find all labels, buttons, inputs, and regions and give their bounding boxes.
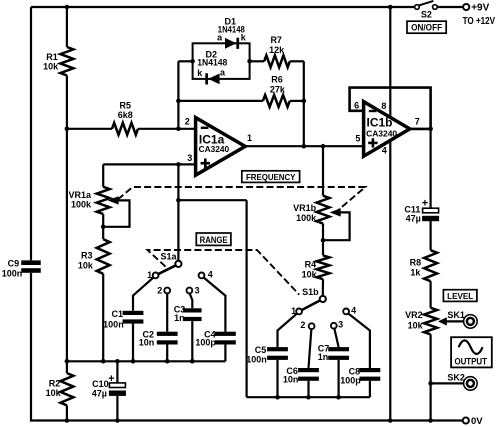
svg-text:2: 2 [185, 116, 190, 126]
svg-text:R7: R7 [270, 35, 282, 45]
svg-text:R6: R6 [271, 75, 283, 85]
svg-text:4: 4 [382, 145, 387, 155]
svg-text:1n: 1n [174, 313, 185, 323]
svg-text:IC1b: IC1b [367, 115, 393, 129]
svg-text:10n: 10n [139, 337, 155, 347]
svg-text:10k: 10k [408, 321, 424, 331]
svg-text:+: + [422, 197, 428, 209]
svg-text:6: 6 [354, 100, 359, 110]
svg-text:100n: 100n [103, 319, 124, 329]
svg-text:100p: 100p [195, 337, 216, 347]
svg-text:VR2: VR2 [405, 310, 423, 320]
svg-text:10k: 10k [78, 261, 94, 271]
svg-text:3: 3 [195, 285, 200, 295]
svg-text:3: 3 [187, 153, 192, 163]
svg-text:+9V: +9V [471, 3, 489, 14]
svg-text:0V: 0V [471, 416, 483, 427]
svg-text:10k: 10k [302, 269, 318, 279]
svg-text:2: 2 [300, 320, 305, 330]
svg-text:R2: R2 [49, 378, 61, 388]
svg-text:6k8: 6k8 [118, 110, 133, 120]
svg-text:47µ: 47µ [92, 389, 107, 399]
svg-text:R4: R4 [305, 260, 317, 270]
svg-text:4: 4 [208, 270, 213, 280]
svg-text:1: 1 [247, 133, 252, 143]
svg-text:C10: C10 [92, 379, 109, 389]
svg-text:100p: 100p [340, 375, 361, 385]
svg-text:27k: 27k [270, 85, 286, 95]
svg-text:C9: C9 [8, 258, 20, 268]
svg-text:100n: 100n [246, 354, 267, 364]
svg-text:+: + [108, 373, 114, 385]
svg-text:1N4148: 1N4148 [197, 57, 227, 67]
svg-text:5: 5 [355, 134, 360, 144]
svg-text:CA3240: CA3240 [199, 144, 230, 154]
svg-text:TO +12V: TO +12V [463, 16, 496, 27]
svg-text:100k: 100k [71, 200, 92, 210]
svg-text:100k: 100k [296, 213, 317, 223]
svg-text:4: 4 [351, 305, 356, 315]
svg-text:47µ: 47µ [406, 214, 421, 224]
svg-text:1n: 1n [318, 352, 329, 362]
svg-text:SK1: SK1 [447, 310, 465, 320]
svg-text:RANGE: RANGE [200, 235, 228, 245]
svg-text:10k: 10k [43, 61, 59, 71]
svg-text:12k: 12k [269, 45, 285, 55]
svg-text:7: 7 [415, 116, 420, 126]
svg-text:R5: R5 [120, 100, 132, 110]
svg-text:FREQUENCY: FREQUENCY [246, 172, 296, 182]
svg-text:LEVEL: LEVEL [447, 291, 473, 301]
svg-text:OUTPUT: OUTPUT [454, 355, 487, 366]
svg-text:C1: C1 [111, 309, 123, 319]
svg-text:10n: 10n [283, 374, 299, 384]
svg-text:S1b: S1b [302, 287, 319, 297]
svg-text:S2: S2 [421, 9, 432, 19]
svg-text:VR1b: VR1b [293, 203, 317, 213]
svg-text:R3: R3 [81, 251, 93, 261]
svg-text:10k: 10k [46, 388, 62, 398]
svg-text:2: 2 [157, 285, 162, 295]
svg-text:3: 3 [338, 319, 343, 329]
svg-text:R8: R8 [410, 257, 422, 267]
svg-text:VR1a: VR1a [68, 190, 92, 200]
svg-text:SK2: SK2 [447, 372, 465, 382]
svg-text:ON/OFF: ON/OFF [411, 23, 442, 33]
svg-text:8: 8 [381, 101, 386, 111]
svg-text:100n: 100n [2, 269, 23, 279]
svg-text:S1a: S1a [160, 252, 177, 262]
svg-text:CA3240: CA3240 [366, 128, 397, 138]
svg-text:1k: 1k [410, 267, 421, 277]
